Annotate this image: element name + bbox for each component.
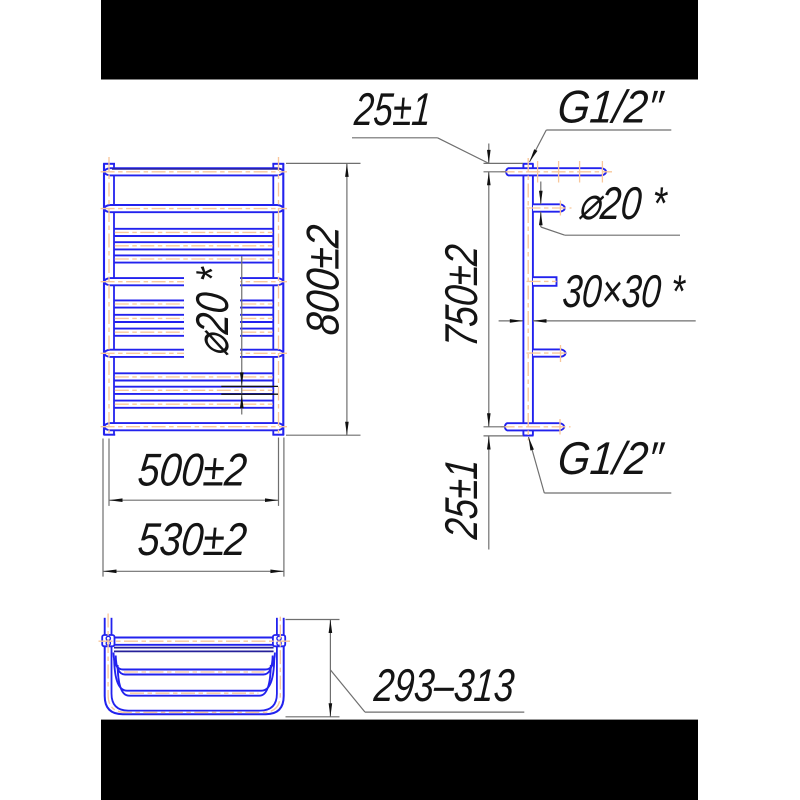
leader diagonal d20 side	[541, 227, 565, 235]
arrow G1/2 top	[530, 149, 538, 162]
svg-text:25±1: 25±1	[352, 83, 433, 135]
centerline capsule rung	[101, 281, 287, 283]
side view: vertical rail (edge-on)	[522, 163, 524, 435]
svg-text:530±2: 530±2	[136, 514, 249, 566]
centerline shelf tube 4	[130, 692, 258, 694]
side view: lower stub tube	[533, 349, 566, 356]
white mask box behind d20 label	[184, 264, 240, 366]
side rail top cap	[523, 163, 534, 165]
extension line top (293-313)	[286, 619, 340, 621]
thin rung tube 3	[114, 254, 274, 256]
thin rung tube 4	[114, 299, 274, 301]
arrow 293-313 bottom	[329, 703, 333, 717]
centerline shelf outline	[108, 614, 280, 713]
arrow G1/2 bottom	[529, 437, 534, 451]
tick mark d20 stub	[559, 201, 561, 216]
arrow d20 side upper	[539, 191, 543, 205]
centerline thin rung	[115, 231, 273, 233]
d20 arrow lower	[240, 395, 244, 409]
arrow d20 side lower	[539, 212, 543, 226]
svg-text:293–313: 293–313	[371, 660, 516, 711]
centerline thin rung	[115, 389, 273, 391]
centerline capsule rung	[101, 208, 287, 210]
centerline thin rung	[115, 317, 273, 319]
30x30 dim left tail	[499, 320, 523, 322]
arrow 530 right	[270, 570, 284, 574]
left stub inner line	[111, 618, 113, 647]
reference line under 293-313	[365, 711, 524, 713]
centerline capsule rung	[101, 171, 287, 173]
left rail top cap	[103, 163, 115, 165]
shelf tube 2 top edge	[114, 647, 274, 649]
left stub outer line	[104, 618, 106, 647]
dimension line 750	[488, 172, 490, 427]
extension line top (800)	[286, 162, 361, 164]
thin rung tube 9	[114, 400, 274, 402]
leader diagonal G1/2 top	[530, 130, 547, 162]
extension line rail bottom (25)	[484, 435, 524, 437]
dimension line 800	[346, 163, 348, 435]
tick mark bottom tube	[559, 419, 561, 435]
dimension tail 25 top	[488, 144, 490, 164]
connector circle	[277, 641, 281, 645]
30x30 dim right line	[533, 320, 696, 322]
d20 measured tube bottom edge mark	[221, 393, 278, 395]
arrow 750 bottom	[487, 413, 491, 427]
side view: bottom tube	[505, 423, 564, 430]
capsule rung tube 3 (d20)	[104, 278, 283, 285]
centerline shelf tube 3	[124, 671, 264, 673]
front view: right vertical rail 30x30 inner line	[272, 163, 274, 435]
capsule rung tube 1 (d20)	[104, 168, 283, 175]
tick mark shelf tube	[558, 161, 560, 183]
arrow 500 right	[265, 498, 279, 502]
dimension line 530	[103, 570, 284, 572]
centerline right rail	[278, 157, 280, 433]
extension line right (530)	[283, 438, 285, 577]
arrow 530 left	[103, 570, 117, 574]
centerline side rail	[527, 158, 529, 441]
arrow 293-313 top	[329, 620, 333, 634]
d20 side dim upper tail	[540, 182, 542, 205]
right stub outer line	[283, 618, 285, 647]
svg-text:25±1: 25±1	[436, 457, 487, 542]
svg-text:G1/2″: G1/2″	[556, 82, 667, 133]
arrow 30x30 left	[510, 319, 524, 323]
thin rung tube 5	[114, 314, 274, 316]
arrow 25 bottom	[487, 436, 491, 450]
capsule rung tube 2 (d20)	[104, 205, 283, 212]
shelf tube 3 with bends	[114, 653, 275, 670]
reference line under G1/2 top	[546, 129, 671, 131]
right rail top cap	[272, 163, 284, 165]
svg-text:30×30 *: 30×30 *	[561, 265, 688, 317]
outer shell of shelf	[105, 646, 284, 714]
arrow 800 top	[345, 163, 349, 177]
leader diagonal 25+-1	[438, 138, 489, 164]
svg-text:G1/2″: G1/2″	[556, 433, 667, 484]
centerline bottom tube	[501, 426, 571, 428]
front view: right vertical rail outer line	[282, 163, 284, 435]
tick mark shelf tube	[601, 161, 603, 183]
svg-text:500±2: 500±2	[136, 445, 249, 497]
leader diagonal 293-313	[330, 670, 365, 712]
dimension line 500	[109, 499, 279, 501]
tick mark shelf tube	[579, 161, 581, 183]
side view: top shelf tube	[506, 168, 606, 175]
centerline d20 stub	[527, 207, 572, 209]
centerline thin rung	[115, 376, 273, 378]
shelf tube 4 with bends	[114, 659, 274, 691]
side view: d20 stub tube	[533, 204, 565, 211]
connector square left	[102, 635, 114, 646]
shelf tube 1 top edge	[103, 637, 284, 639]
arrow 25 top	[487, 150, 491, 164]
extension line right (500)	[278, 438, 280, 506]
extension line left (500)	[108, 439, 110, 506]
svg-text:⌀20 *: ⌀20 *	[186, 264, 238, 358]
arrow 750 top	[487, 172, 491, 186]
side rail bottom cap	[523, 435, 534, 437]
thin rung tube 7	[114, 372, 274, 374]
svg-text:⌀20 *: ⌀20 *	[576, 177, 670, 229]
arrow 800 bottom	[345, 422, 349, 436]
extension line bottom (293-313)	[286, 716, 340, 718]
tick mark shelf tube	[537, 161, 539, 183]
centerline top shelf tube	[501, 171, 612, 173]
front view: left vertical rail outer line	[103, 163, 105, 435]
centerline capsule rung	[101, 426, 287, 428]
left rail bottom cap	[103, 434, 115, 436]
centerline thin rung	[115, 245, 273, 247]
thin rung tube 6	[114, 328, 274, 330]
connector circle	[277, 636, 281, 640]
shelf tube 2 bottom edge	[114, 650, 274, 652]
reference line under G1/2 bottom	[544, 492, 671, 494]
arrow 500 left	[109, 498, 123, 502]
reference line under 25+-1	[352, 137, 438, 139]
arrow 30x30 right	[533, 319, 547, 323]
inner shell of shelf	[112, 646, 277, 710]
centerline shelf tube 1	[99, 640, 291, 642]
svg-text:750±2: 750±2	[435, 242, 487, 348]
bottom black band	[101, 720, 698, 800]
centerline left rail	[108, 157, 110, 433]
centerline lower stub	[527, 352, 569, 354]
dark accent on top rung upper edge	[112, 168, 281, 170]
front view: left vertical rail 30x30 inner line	[113, 163, 115, 435]
connector circle	[106, 636, 110, 640]
capsule rung tube 4 (d20)	[104, 350, 283, 357]
d20 side dim lower tail	[540, 212, 542, 227]
right rail bottom cap	[272, 434, 284, 436]
extension line left (530)	[102, 439, 104, 577]
centerline thin rung	[115, 303, 273, 305]
connector circle	[106, 641, 110, 645]
d20 measured tube top edge mark	[221, 385, 278, 387]
centerline capsule rung	[101, 352, 287, 354]
leader diagonal G1/2 bottom	[529, 437, 545, 493]
svg-text:800±2: 800±2	[298, 223, 349, 337]
reference line under d20 side	[565, 234, 680, 236]
tick mark lower stub	[560, 345, 562, 362]
thin rung tube 1	[114, 228, 274, 230]
connector square right	[273, 635, 285, 646]
extension line rail top (25)	[484, 162, 524, 164]
thin rung tube 8	[114, 386, 274, 388]
centerline thin rung	[115, 331, 273, 333]
d20 arrow upper	[240, 372, 244, 386]
extension line tube center bottom (25)	[484, 426, 505, 428]
top black band	[101, 0, 698, 80]
centerline square stub	[527, 280, 557, 282]
right stub inner line	[276, 618, 278, 647]
shelf tube 1 bottom edge	[103, 644, 284, 646]
dimension tail 25 bottom	[488, 436, 490, 550]
thin rung tube 2	[114, 241, 274, 243]
d20 dimension line (front)	[241, 256, 243, 415]
extension line bottom (800)	[286, 434, 361, 436]
extension line tube center (25)	[484, 171, 507, 173]
centerline thin rung	[115, 403, 273, 405]
capsule rung tube 5 (d20)	[104, 423, 283, 430]
side view: 30x30 square stub	[533, 277, 557, 286]
dimension line 293-313	[329, 620, 331, 717]
centerline thin rung	[115, 258, 273, 260]
